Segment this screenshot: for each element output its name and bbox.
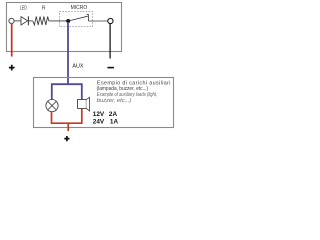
switch lever: [68, 16, 88, 21]
load example box: [34, 78, 174, 128]
resistor R: [33, 17, 49, 26]
plus symbol left: [9, 65, 15, 71]
svg-text:AUX: AUX: [72, 63, 83, 69]
red bus wire to +: [51, 109, 83, 131]
caption english line 2 italic: [97, 98, 132, 104]
switch contact: [87, 15, 89, 21]
buzzer: [78, 97, 90, 111]
wire diode to resistor: [28, 20, 32, 22]
control unit box: [7, 3, 122, 52]
minus symbol right: [107, 67, 114, 69]
label AUX: [72, 63, 83, 69]
caption english line 1 italic: [97, 92, 158, 98]
svg-text:24V1A: 24V1A: [93, 119, 119, 126]
terminal circle right: [108, 18, 113, 23]
caption italian line 1: [97, 80, 171, 86]
terminal circle left: [9, 18, 14, 23]
LED diode: [21, 16, 28, 25]
micro switch dashed enclosure: [60, 12, 93, 27]
wire circle to diode: [14, 20, 21, 22]
plus symbol bottom: [64, 136, 69, 141]
node junction dot: [66, 19, 70, 23]
red wire to + supply: [11, 24, 13, 57]
svg-text:LED: LED: [20, 5, 27, 11]
svg-text:R: R: [42, 5, 46, 11]
rating 24V 1A: [93, 119, 119, 126]
label LED: [20, 5, 27, 11]
wire contact to terminal: [88, 20, 107, 22]
label R: [42, 5, 46, 11]
label MICRO: [71, 5, 88, 11]
black wire to - supply: [109, 24, 111, 59]
svg-text:12V2A: 12V2A: [93, 111, 118, 118]
purple AUX wire: [52, 22, 82, 100]
rating 12V 2A: [93, 111, 118, 118]
svg-text:buzzer, etc...): buzzer, etc...): [97, 98, 132, 104]
lamp: [46, 100, 58, 112]
caption italian line 2: [97, 86, 149, 92]
svg-text:MICRO: MICRO: [71, 5, 88, 11]
wire resistor to junction: [49, 20, 67, 22]
